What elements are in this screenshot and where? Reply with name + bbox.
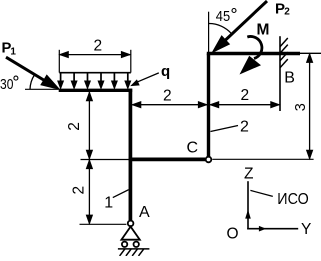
svg-text:2: 2	[71, 186, 88, 195]
svg-text:2: 2	[240, 118, 249, 135]
svg-text:45: 45	[216, 8, 230, 25]
svg-text:Z: Z	[244, 166, 253, 183]
svg-text:B: B	[284, 70, 295, 87]
svg-text:ИСО: ИСО	[277, 191, 308, 208]
svg-text:2: 2	[284, 6, 290, 17]
svg-text:M: M	[257, 21, 270, 38]
svg-text:1: 1	[104, 195, 113, 212]
svg-text:30: 30	[0, 77, 13, 93]
svg-text:1: 1	[10, 47, 16, 58]
svg-text:2: 2	[241, 87, 250, 104]
svg-text:2: 2	[163, 88, 172, 105]
svg-text:Y: Y	[301, 221, 311, 238]
svg-text:C: C	[187, 140, 199, 157]
svg-text:A: A	[139, 204, 150, 221]
svg-text:2: 2	[66, 122, 83, 131]
svg-text:3: 3	[293, 103, 309, 111]
svg-text:O: O	[227, 226, 239, 243]
svg-text:q: q	[161, 63, 170, 80]
svg-text:2: 2	[94, 37, 103, 54]
